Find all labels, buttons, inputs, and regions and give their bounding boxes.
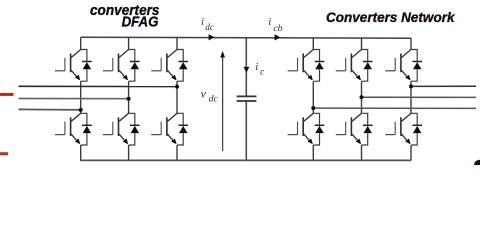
wire: emitter of Q4 to DC- bus [128, 145, 130, 160]
current arrow i_cb on DC+ bus [275, 34, 281, 40]
transistor Q8 (IGBT, network leg A lower) [288, 113, 314, 144]
wire: emitter of Q10 to DC- bus [361, 145, 363, 160]
svg-text:i: i [268, 16, 271, 28]
wire: collector stub of Q12 from phase node [410, 112, 412, 115]
transistor Q5 (IGBT, DFAG leg C upper) [151, 50, 177, 81]
wire: leg midpoint vertical (Q9 emitter down to lower cell) [361, 81, 363, 113]
diode D6 (antiparallel with Q6) [177, 113, 188, 145]
diode D8 (antiparallel with Q8) [313, 113, 324, 145]
wire: emitter of Q8 to DC- bus [312, 145, 314, 160]
transistor Q6 (IGBT, DFAG leg C lower) [151, 113, 177, 144]
wire: DC- bus (bottom rail) [80, 159, 411, 161]
wire: collector stub of Q1 from DC+ bus [80, 37, 82, 49]
transistor Q12 (IGBT, network leg C lower) [385, 113, 411, 144]
svg-text:c: c [260, 67, 264, 77]
transistor Q3 (IGBT, DFAG leg B upper) [103, 50, 129, 81]
wire: collector stub of Q9 from DC+ bus [361, 38, 363, 49]
label i_dc [201, 16, 214, 32]
node: DFAG phase c junction [79, 108, 83, 112]
red mark bottom left [0, 152, 8, 155]
wire: capacitor branch lower [245, 102, 247, 161]
wire: network phase b line [362, 96, 477, 98]
diode D10 (antiparallel with Q10) [362, 113, 373, 145]
red mark left edge [0, 93, 14, 96]
diode D9 (antiparallel with Q9) [362, 50, 373, 82]
transistor Q2 (IGBT, DFAG leg A lower) [55, 113, 81, 144]
diode D2 (antiparallel with Q2) [81, 113, 92, 145]
measurement arrow v_dc (points up) [220, 51, 225, 151]
transistor Q4 (IGBT, DFAG leg B lower) [103, 113, 129, 144]
svg-text:cb: cb [273, 23, 282, 34]
wire: network phase c line [313, 107, 476, 109]
wire: network phase a line [411, 85, 476, 87]
wire: emitter of Q6 to DC- bus [176, 145, 178, 160]
svg-text:dc: dc [209, 93, 219, 104]
node: network phase a junction [409, 84, 413, 88]
current arrow i_dc on DC+ bus [209, 34, 215, 40]
label i_cb [268, 16, 282, 34]
wire: collector stub of Q7 from DC+ bus [312, 38, 314, 50]
wire: capacitor branch upper [245, 38, 247, 96]
dark blob bottom right corner [474, 160, 480, 165]
wire: DFAG phase a line [19, 85, 178, 87]
wire: leg midpoint vertical (Q7 emitter down to lower cell) [312, 81, 314, 113]
wire: collector stub of Q8 from phase node [312, 112, 314, 115]
svg-text:Converters Network: Converters Network [326, 10, 456, 25]
transistor Q9 (IGBT, network leg B upper) [336, 50, 362, 81]
wire: collector stub of Q4 from phase node [128, 112, 130, 115]
wire: leg midpoint vertical (Q11 emitter down to lower cell) [410, 81, 412, 113]
svg-text:DFAG: DFAG [122, 15, 159, 31]
diode D3 (antiparallel with Q3) [129, 50, 140, 82]
current arrow i_c (down) on capacitor branch [244, 67, 250, 73]
wire: emitter of Q2 to DC- bus [80, 145, 82, 160]
node: network phase b junction [360, 95, 364, 99]
transistor Q1 (IGBT, DFAG leg A upper) [55, 50, 81, 81]
diode D7 (antiparallel with Q7) [313, 50, 324, 82]
svg-text:dc: dc [205, 22, 214, 32]
svg-text:i: i [201, 16, 204, 28]
transistor Q11 (IGBT, network leg C upper) [385, 50, 411, 81]
wire: DFAG phase b line [19, 98, 129, 100]
label v_dc [201, 87, 219, 105]
wire: leg midpoint vertical (Q5 emitter down to lower cell) [176, 81, 178, 113]
node: DFAG phase b junction [127, 97, 131, 101]
wire: collector stub of Q11 from DC+ bus [410, 38, 412, 49]
wire: collector stub of Q2 from phase node [80, 112, 82, 115]
svg-text:v: v [201, 87, 207, 101]
diode D4 (antiparallel with Q4) [129, 113, 140, 145]
svg-text:i: i [255, 61, 258, 73]
label i_c [255, 61, 264, 77]
wire: collector stub of Q10 from phase node [361, 112, 363, 115]
transistor Q10 (IGBT, network leg B lower) [336, 113, 362, 144]
wire: emitter of Q12 to DC- bus [410, 145, 412, 160]
wire: leg midpoint vertical (Q1 emitter down to lower cell) [80, 81, 82, 113]
diode D1 (antiparallel with Q1) [81, 50, 92, 82]
node: network phase c junction [311, 106, 315, 110]
capacitor C (DC link) [237, 96, 257, 101]
transistor Q7 (IGBT, network leg A upper) [288, 50, 314, 81]
wire: collector stub of Q5 from DC+ bus [176, 38, 178, 50]
wire: DFAG phase c line [19, 108, 81, 111]
wire: collector stub of Q6 from phase node [176, 112, 178, 115]
diode D11 (antiparallel with Q11) [411, 50, 422, 82]
wire: leg midpoint vertical (Q3 emitter down to lower cell) [128, 81, 130, 113]
diode D5 (antiparallel with Q5) [177, 50, 188, 82]
diode D12 (antiparallel with Q12) [411, 113, 422, 145]
node: DFAG phase a junction [175, 85, 179, 89]
wire: collector stub of Q3 from DC+ bus [128, 37, 130, 49]
wire: DC+ bus (top rail) [81, 36, 411, 39]
